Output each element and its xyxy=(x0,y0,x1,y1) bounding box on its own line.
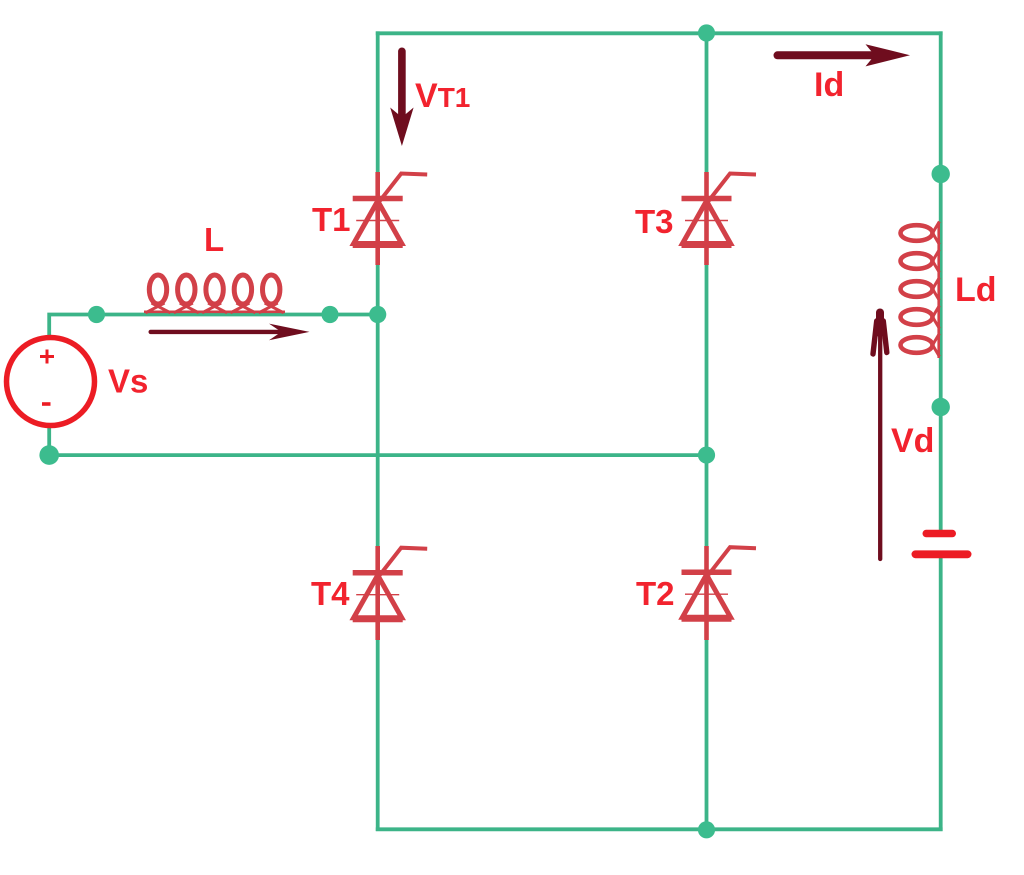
wire right column upper xyxy=(939,31,943,531)
arrow Vd xyxy=(873,313,887,560)
svg-text:Ld: Ld xyxy=(955,271,997,309)
thyristor T2 xyxy=(682,546,757,640)
thyristor T1 xyxy=(353,172,428,265)
wire middle column middle xyxy=(705,264,709,549)
node dot source bottom xyxy=(39,445,59,465)
svg-text:Vd: Vd xyxy=(891,422,934,460)
node dot bottom rail xyxy=(698,821,715,838)
node dot top rail xyxy=(698,24,715,41)
node dot below Ld xyxy=(932,398,950,416)
inductor L xyxy=(144,275,285,313)
wire source bottom to mid rail xyxy=(49,426,706,455)
svg-text:Vs: Vs xyxy=(108,363,148,400)
inductor Ld xyxy=(901,222,940,359)
node dot mid rail xyxy=(698,447,715,464)
wire left column middle xyxy=(376,264,380,549)
svg-text:VT1: VT1 xyxy=(415,77,470,115)
node dot above Ld xyxy=(932,165,950,183)
svg-text:L: L xyxy=(204,221,224,258)
voltage source Vs xyxy=(7,338,95,426)
wire top rail xyxy=(376,31,943,35)
wire left column lower xyxy=(376,639,380,831)
wire middle column lower xyxy=(705,639,709,831)
svg-text:T4: T4 xyxy=(311,575,350,612)
current arrow through L xyxy=(149,324,310,341)
svg-text:T2: T2 xyxy=(636,575,675,612)
arrow Id xyxy=(774,44,911,66)
thyristor T3 xyxy=(682,172,757,265)
svg-text:T3: T3 xyxy=(635,203,674,240)
wire bottom rail xyxy=(376,827,943,831)
wire right column lower xyxy=(939,557,943,831)
wire left column upper xyxy=(376,31,380,174)
node dot L right xyxy=(321,306,338,323)
arrow VT1 xyxy=(390,48,413,147)
wire source top to L xyxy=(49,315,378,338)
thyristor T4 xyxy=(353,546,428,640)
svg-text:Id: Id xyxy=(814,66,844,104)
battery Vd xyxy=(912,530,972,558)
node dot L left xyxy=(88,306,105,323)
svg-text:T1: T1 xyxy=(312,201,351,238)
node dot T1 column xyxy=(369,306,386,323)
wire middle column upper xyxy=(705,31,709,174)
